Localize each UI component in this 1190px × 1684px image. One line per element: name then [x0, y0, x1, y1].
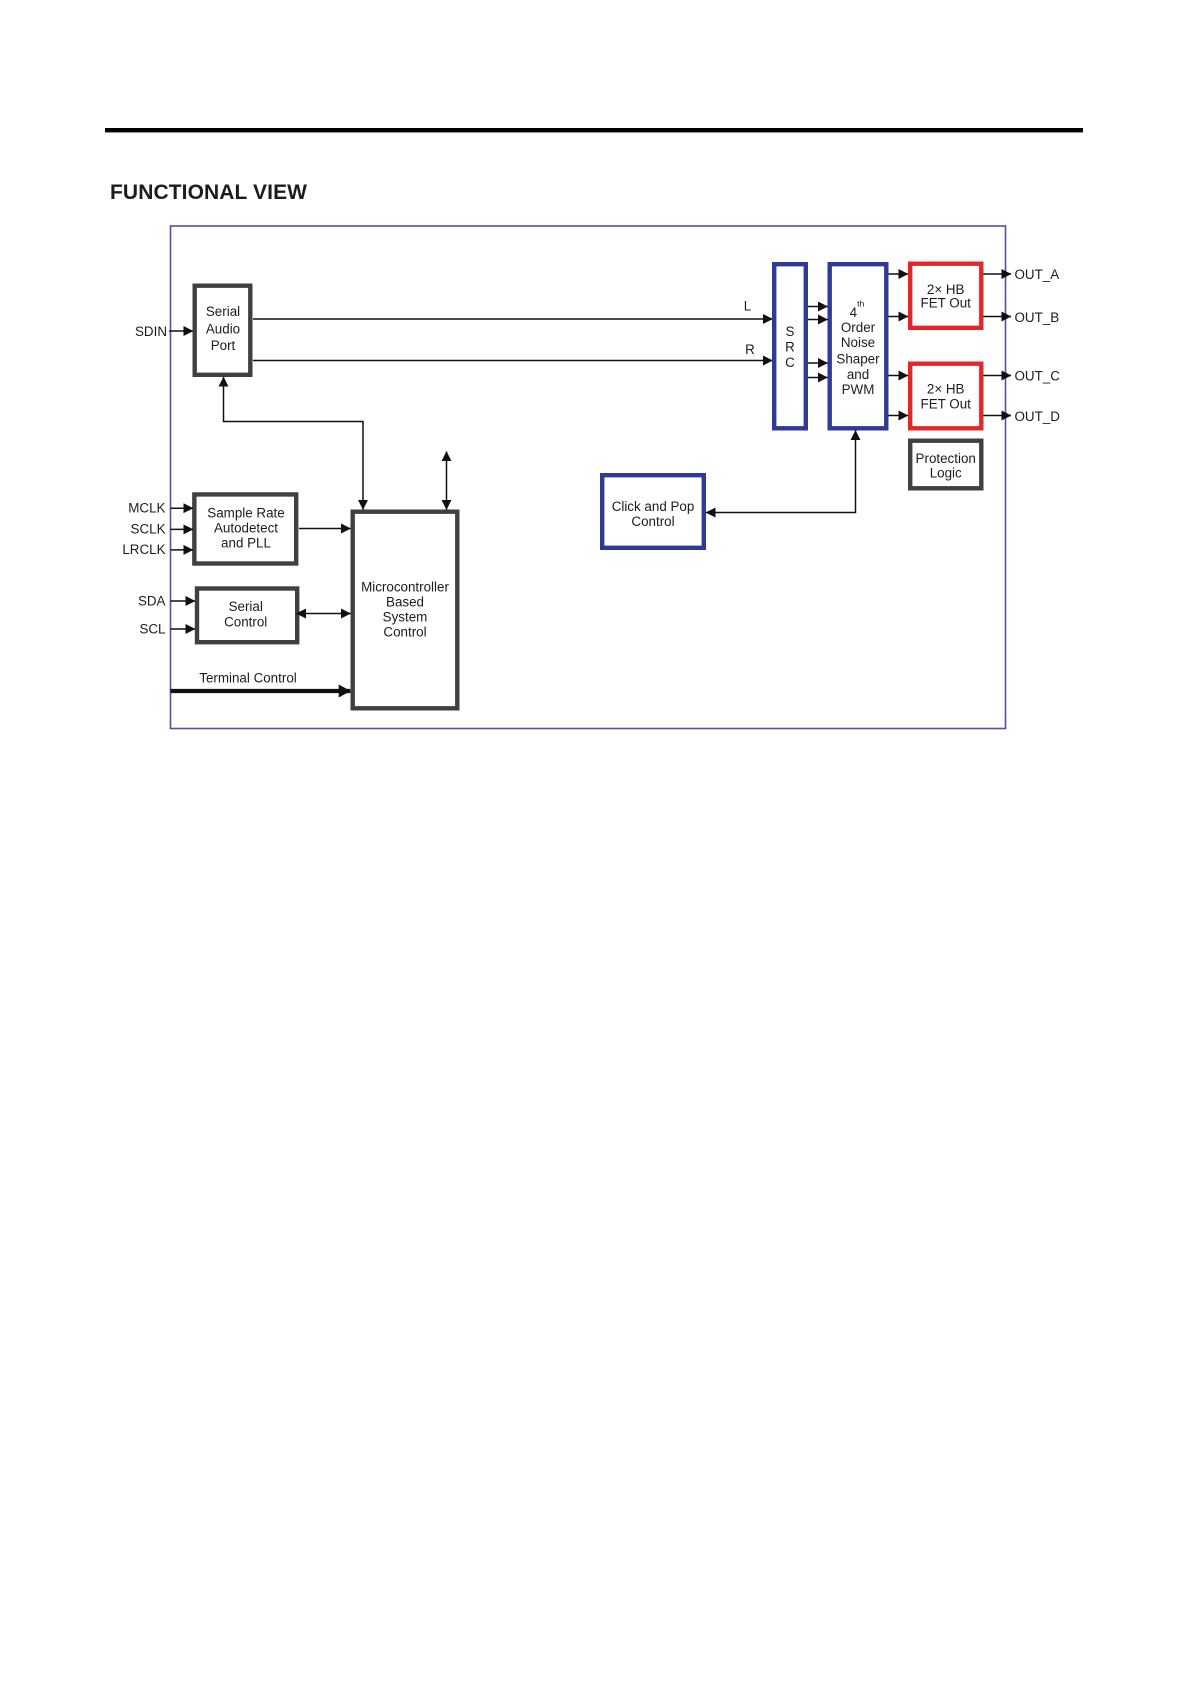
block: 2x HB FET Out (bottom): [910, 364, 981, 429]
svg-text:FET Out: FET Out: [921, 397, 972, 412]
block: Click and Pop Control: [602, 475, 704, 548]
block: 2x HB FET Out (top): [910, 264, 981, 328]
svg-text:SCL: SCL: [139, 621, 165, 636]
wire MCLK arrow: [171, 507, 194, 509]
svg-text:Logic: Logic: [930, 465, 962, 480]
wire NS to FET2 (D): [889, 415, 909, 417]
svg-text:and: and: [847, 367, 869, 382]
block: Protection Logic: [910, 441, 981, 489]
wire SDA arrow: [171, 600, 196, 602]
diagram outer frame: [171, 226, 1006, 729]
wire R (SAP to SRC): [253, 360, 773, 362]
svg-text:LRCLK: LRCLK: [122, 542, 165, 557]
svg-text:Control: Control: [383, 625, 426, 640]
svg-text:OUT_D: OUT_D: [1015, 409, 1061, 424]
wire LRCLK arrow: [171, 549, 194, 551]
svg-text:SDA: SDA: [138, 593, 166, 608]
wire serial-control to MCU (double arrow): [297, 613, 351, 615]
top rule: [105, 128, 1083, 132]
wire terminal control (thick): [171, 689, 351, 693]
svg-text:Port: Port: [211, 338, 236, 353]
svg-text:Serial: Serial: [229, 599, 263, 614]
wire FET1 to OUT_B: [984, 316, 1012, 318]
svg-text:Audio: Audio: [206, 321, 240, 336]
svg-text:Order: Order: [841, 320, 876, 335]
svg-text:Noise: Noise: [841, 335, 875, 350]
svg-text:Terminal Control: Terminal Control: [199, 670, 297, 685]
svg-text:OUT_A: OUT_A: [1015, 267, 1060, 282]
wire NS to FET2 (C): [889, 375, 909, 377]
wire FET2 to OUT_C: [984, 375, 1012, 377]
block: SRC: [774, 264, 806, 428]
svg-text:FUNCTIONAL VIEW: FUNCTIONAL VIEW: [110, 181, 307, 204]
block: Sample Rate Autodetect and PLL: [194, 494, 296, 563]
svg-text:Protection: Protection: [916, 451, 976, 466]
wire NS to FET1 (B): [889, 316, 909, 318]
block: Serial Audio Port: [195, 286, 251, 375]
wire SRC to noise shaper (bottom pair): [808, 362, 828, 364]
wire SAP to MCU elbow (arrows both ends): [224, 377, 364, 510]
wire SCLK arrow: [171, 528, 194, 530]
svg-text:Microcontroller: Microcontroller: [361, 580, 449, 595]
block: Serial Control: [197, 589, 297, 643]
block: Microcontroller Based System Control: [353, 512, 458, 709]
svg-text:and PLL: and PLL: [221, 536, 271, 551]
wire: [808, 377, 828, 379]
wire FET2 to OUT_D: [984, 415, 1012, 417]
svg-text:FET Out: FET Out: [921, 295, 972, 310]
svg-text:PWM: PWM: [842, 382, 875, 397]
wire: [808, 319, 828, 321]
wire click-pop to noise shaper elbow: [706, 431, 856, 513]
wire SCL arrow: [171, 628, 196, 630]
wire L (SAP to SRC): [253, 318, 773, 320]
svg-text:R: R: [745, 342, 755, 357]
wire FET1 to OUT_A: [984, 273, 1012, 275]
wire MCU double-headed vertical arrow: [446, 452, 448, 510]
wire sample-rate to MCU: [299, 528, 351, 530]
svg-text:L: L: [744, 298, 751, 313]
svg-text:Autodetect: Autodetect: [214, 521, 278, 536]
block: 4th Order Noise Shaper and PWM: [830, 264, 887, 428]
svg-text:OUT_B: OUT_B: [1015, 310, 1060, 325]
wire NS to FET1 (A): [889, 273, 909, 275]
wire SDIN arrow: [169, 330, 193, 332]
svg-text:S: S: [786, 324, 795, 339]
svg-text:Sample Rate: Sample Rate: [207, 505, 284, 520]
svg-text:Click and Pop: Click and Pop: [612, 499, 695, 514]
svg-text:Shaper: Shaper: [836, 351, 880, 366]
svg-text:Control: Control: [631, 514, 674, 529]
wire SRC to noise shaper (top pair): [808, 306, 828, 308]
svg-text:OUT_C: OUT_C: [1015, 369, 1061, 384]
svg-text:C: C: [785, 355, 795, 370]
svg-text:Serial: Serial: [206, 304, 240, 319]
svg-text:2× HB: 2× HB: [927, 382, 965, 397]
svg-text:Control: Control: [224, 615, 267, 630]
svg-text:Based: Based: [386, 595, 424, 610]
svg-text:MCLK: MCLK: [128, 501, 165, 516]
svg-text:SDIN: SDIN: [135, 324, 167, 339]
svg-text:R: R: [785, 340, 795, 355]
svg-text:SCLK: SCLK: [131, 522, 166, 537]
svg-text:System: System: [383, 610, 428, 625]
